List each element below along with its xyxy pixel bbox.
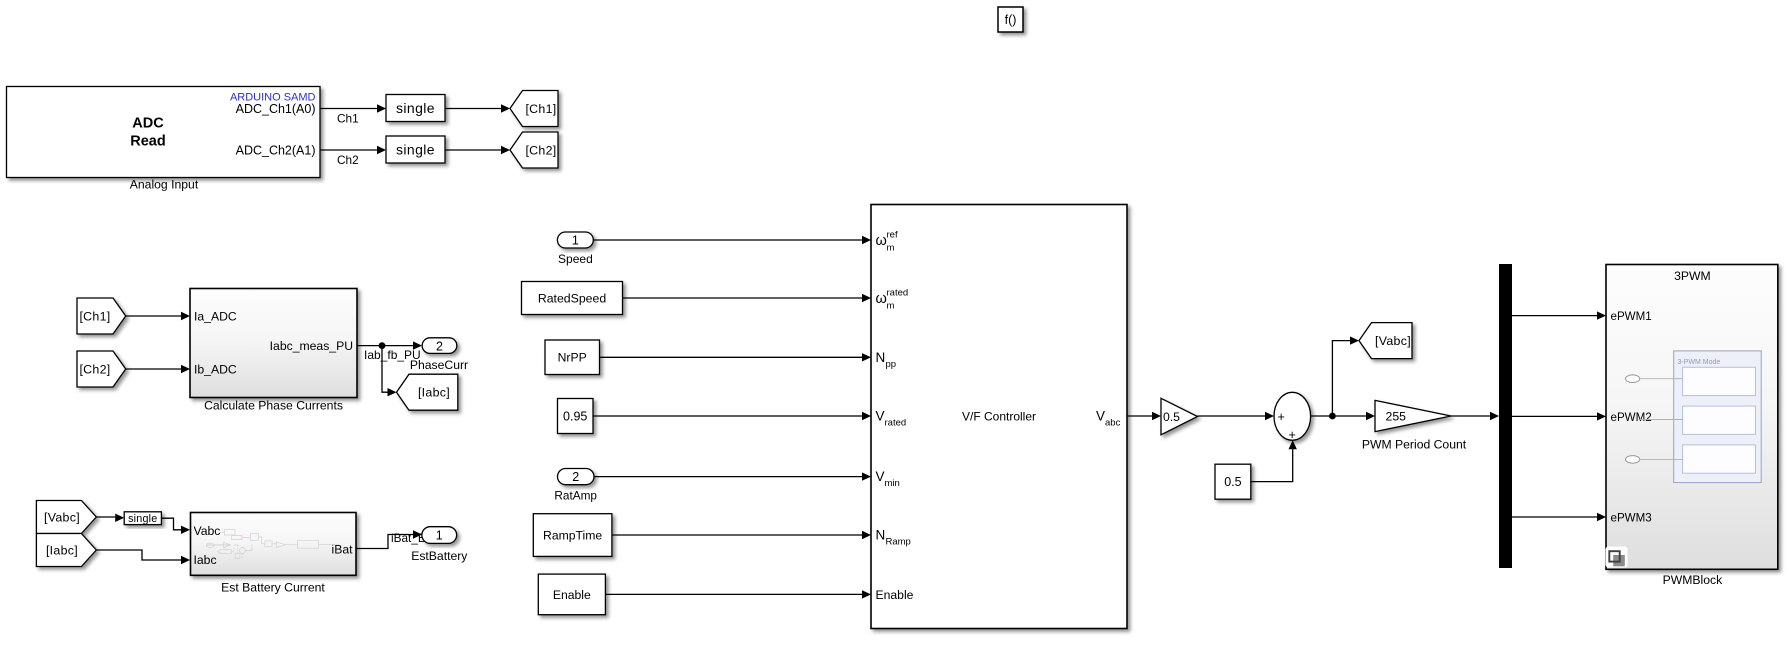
svg-text:Calculate Phase Currents: Calculate Phase Currents — [204, 399, 343, 413]
block data type conversion single (Ch2) — [386, 136, 445, 163]
svg-text:Ch2: Ch2 — [337, 153, 359, 167]
svg-text:ω: ω — [876, 233, 887, 249]
svg-text:[Ch2]: [Ch2] — [79, 363, 110, 377]
goto tag [Ch2] — [510, 132, 558, 168]
wire 0.95 -> V_rated port — [593, 415, 862, 417]
svg-text:[Ch1]: [Ch1] — [79, 310, 110, 324]
subsystem PWMBlock 3PWM — [1606, 265, 1778, 570]
sum junction ellipse — [1274, 392, 1311, 440]
svg-text:3PWM: 3PWM — [1674, 269, 1711, 283]
block data type conversion single (small) — [124, 512, 161, 525]
svg-text:0.5: 0.5 — [1163, 410, 1180, 424]
svg-text:f(): f() — [1005, 13, 1017, 27]
svg-text:abc: abc — [1105, 418, 1121, 429]
function-call generator f() — [998, 7, 1023, 32]
from tag [Ch1] — [77, 298, 126, 334]
preview line ePWM2 — [1640, 419, 1683, 421]
subsystem V/F Controller — [871, 205, 1127, 629]
svg-text:ADC_Ch1(A0): ADC_Ch1(A0) — [236, 102, 316, 116]
svg-text:PhaseCurr: PhaseCurr — [410, 358, 468, 372]
constant NrPP — [545, 340, 600, 375]
svg-text:255: 255 — [1386, 410, 1407, 424]
svg-text:V: V — [876, 469, 885, 484]
svg-text:3-PWM Mode: 3-PWM Mode — [1678, 359, 1721, 366]
svg-text:Speed: Speed — [558, 252, 593, 266]
wire Enable -> Enable port — [605, 593, 862, 595]
subsystem Est Battery Current — [191, 513, 357, 576]
svg-text:m: m — [887, 301, 895, 312]
svg-text:N: N — [876, 528, 886, 543]
svg-text:Est Battery Current: Est Battery Current — [221, 581, 325, 595]
svg-text:0.5: 0.5 — [1224, 475, 1241, 489]
wire RatedSpeed -> w_rated port — [623, 297, 863, 299]
svg-text:+: + — [1289, 428, 1296, 442]
from tag [Ch2] — [77, 351, 126, 387]
block ADC Read (Analog Input) — [7, 87, 321, 178]
svg-text:EstBattery: EstBattery — [411, 549, 468, 563]
svg-text:[Iabc]: [Iabc] — [46, 544, 78, 558]
svg-text:ePWM2: ePWM2 — [1611, 411, 1652, 424]
wire Ch1: ADC Read -> single — [320, 108, 377, 110]
svg-text:Ib_ADC: Ib_ADC — [194, 363, 237, 377]
svg-text:single: single — [128, 513, 157, 525]
outport 2 PhaseCurr — [422, 338, 457, 354]
wire branch up to [Vabc] goto — [1332, 341, 1350, 416]
svg-text:N: N — [876, 350, 886, 365]
svg-text:RatedSpeed: RatedSpeed — [538, 292, 607, 306]
preview port oval 1 — [1626, 375, 1640, 383]
svg-text:min: min — [885, 478, 900, 489]
from tag [Iabc] — [36, 534, 96, 567]
svg-text:[Vabc]: [Vabc] — [44, 511, 80, 525]
svg-text:rated: rated — [885, 418, 907, 429]
svg-text:Iabc: Iabc — [194, 553, 217, 567]
wire RatAmp -> V_min port — [594, 476, 862, 478]
svg-text:0.95: 0.95 — [563, 410, 587, 424]
svg-text:ADC_Ch2(A1): ADC_Ch2(A1) — [236, 144, 316, 158]
wire gain 0.5 -> sum — [1198, 415, 1266, 417]
svg-text:Ia_ADC: Ia_ADC — [194, 310, 237, 324]
preview port oval 2 — [1626, 456, 1640, 464]
library link badge — [1606, 547, 1628, 568]
constant 0.95 — [558, 399, 594, 434]
wire iBat -> EstBattery outport — [356, 535, 413, 549]
svg-text:1: 1 — [436, 529, 443, 543]
svg-text:[Ch1]: [Ch1] — [525, 102, 556, 116]
wire bar -> ePWM3 — [1512, 516, 1597, 518]
svg-text:Read: Read — [130, 134, 165, 150]
svg-text:ePWM3: ePWM3 — [1611, 512, 1652, 525]
goto tag [Ch1] — [510, 91, 558, 127]
svg-text:RampTime: RampTime — [543, 529, 602, 543]
outport 1 EstBattery — [422, 527, 457, 544]
constant Enable — [538, 574, 605, 615]
svg-text:ADC: ADC — [132, 116, 164, 132]
block data type conversion single (Ch1) — [386, 95, 445, 122]
wire single -> Vabc port — [161, 518, 181, 530]
svg-text:2: 2 — [436, 339, 443, 353]
svg-text:V: V — [876, 409, 885, 424]
svg-text:single: single — [396, 100, 435, 116]
wire [Vabc] -> single — [96, 516, 115, 518]
from tag [Vabc] — [36, 501, 96, 534]
goto tag [Iabc] — [397, 374, 458, 410]
svg-text:ePWM1: ePWM1 — [1611, 310, 1652, 323]
inport 2 RatAmp — [557, 469, 594, 485]
svg-text:Analog Input: Analog Input — [130, 178, 199, 192]
wire Ch2: ADC Read -> single — [320, 149, 377, 151]
svg-text:rated: rated — [887, 288, 909, 299]
wire V_abc -> gain 0.5 — [1127, 415, 1152, 417]
wire [Iabc] -> Iabc port — [96, 550, 181, 560]
gain 255 PWM Period Count — [1375, 400, 1451, 431]
svg-text:1: 1 — [572, 234, 579, 248]
svg-text:RatAmp: RatAmp — [554, 489, 597, 503]
wire bar -> ePWM2 — [1512, 415, 1597, 417]
wire 0.5 constant -> sum bottom — [1251, 449, 1293, 481]
svg-text:Enable: Enable — [876, 588, 914, 602]
constant RatedSpeed — [522, 282, 623, 315]
wire 255 -> mux bar — [1451, 415, 1490, 417]
svg-text:m: m — [887, 243, 895, 254]
constant RampTime — [533, 514, 612, 557]
goto tag [Vabc] — [1359, 323, 1412, 359]
wire Speed -> w_ref port — [594, 239, 862, 241]
svg-text:single: single — [396, 142, 435, 158]
svg-text:[Ch2]: [Ch2] — [525, 144, 556, 158]
svg-text:Enable: Enable — [553, 588, 591, 602]
3PWM Mode preview panel — [1674, 351, 1762, 483]
svg-text:[Iabc]: [Iabc] — [418, 386, 450, 400]
svg-text:Ch1: Ch1 — [337, 112, 359, 126]
svg-text:V: V — [1096, 409, 1105, 424]
junction after sum — [1329, 413, 1336, 420]
constant 0.5 (offset) — [1215, 464, 1251, 499]
svg-text:Ramp: Ramp — [886, 537, 911, 548]
svg-text:+: + — [1278, 410, 1285, 424]
svg-text:PWMBlock: PWMBlock — [1663, 573, 1723, 587]
gain 0.5 triangle — [1161, 398, 1198, 435]
wire single -> [Ch2] goto — [445, 149, 501, 151]
inport 1 Speed — [557, 232, 593, 248]
est battery contents preview sketch — [206, 530, 339, 559]
svg-text:Vabc: Vabc — [194, 524, 221, 538]
svg-text:ref: ref — [887, 230, 898, 241]
wire single -> [Ch1] goto — [445, 108, 501, 110]
wire bar -> ePWM1 — [1512, 315, 1597, 317]
wire sum -> 255 gain with junction — [1311, 415, 1366, 417]
svg-text:2: 2 — [572, 470, 579, 484]
svg-text:PWM Period Count: PWM Period Count — [1362, 438, 1467, 452]
wire [Ch2] -> Ib_ADC — [126, 368, 181, 370]
wire NrPP -> Npp port — [600, 356, 863, 358]
wire [Ch1] -> Ia_ADC — [126, 315, 181, 317]
svg-text:Iabc_meas_PU: Iabc_meas_PU — [270, 339, 353, 353]
wire Iabc_meas_PU -> PhaseCurr with branch — [357, 345, 413, 347]
svg-text:V/F Controller: V/F Controller — [962, 410, 1036, 424]
svg-text:ω: ω — [876, 291, 887, 307]
svg-text:[Vabc]: [Vabc] — [1375, 334, 1411, 348]
junction on Iabc wire — [379, 342, 386, 349]
wire branch down to [Iabc] goto — [382, 346, 388, 393]
svg-text:NrPP: NrPP — [558, 351, 587, 365]
subsystem Calculate Phase Currents — [190, 289, 357, 398]
svg-text:pp: pp — [886, 359, 897, 370]
wire RampTime -> N_Ramp port — [612, 534, 862, 536]
demux bar — [1499, 264, 1512, 568]
